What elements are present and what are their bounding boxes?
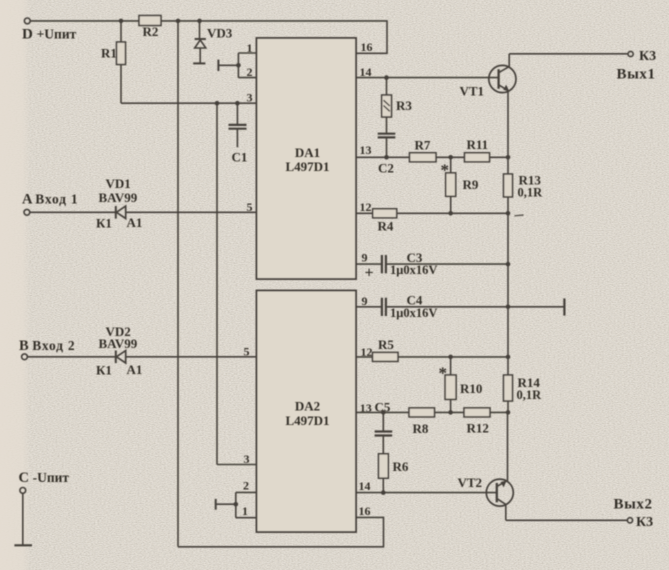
svg-text:12: 12 (360, 200, 372, 214)
IC DA2 L497D1 (257, 291, 357, 533)
svg-text:R7: R7 (415, 138, 431, 153)
capacitor C4 (381, 298, 383, 316)
transistor VT2 (486, 479, 513, 506)
diode VD1 BAV99 (115, 206, 117, 219)
end bar C (14, 544, 32, 546)
resistor R14 (504, 375, 513, 401)
wire left long vertical (+U to bottom) (177, 21, 179, 547)
svg-text:VD1: VD1 (106, 176, 131, 191)
capacitor C1 (236, 103, 238, 124)
node junction R6 bottom (381, 490, 386, 495)
node junction R9 bottom (448, 211, 453, 216)
transistor VT1 (489, 65, 516, 92)
svg-text:VT2: VT2 (458, 475, 483, 490)
node junction C5 top (381, 410, 386, 415)
node junction R14 bottom (506, 410, 511, 415)
svg-text:*: * (441, 161, 450, 180)
node junction left vertical (176, 19, 181, 24)
node junction R9 top (448, 155, 453, 160)
svg-text:B Вход 2: B Вход 2 (19, 338, 75, 354)
svg-text:Вых1: Вых1 (617, 67, 656, 83)
wire pin 9 DA1 (356, 263, 508, 265)
wire pin16 DA2 to bottom rail (178, 517, 384, 546)
svg-text:C5: C5 (375, 400, 391, 415)
node junction R14 top (506, 355, 511, 360)
svg-text:C -Uпит: C -Uпит (19, 470, 70, 486)
wire pin 13 DA2 (356, 411, 508, 413)
node junction R3 top (384, 75, 389, 80)
capacitor C3 (381, 255, 383, 273)
diode VD3 (199, 21, 201, 39)
wire pin 14 DA1 to VT1 base (356, 77, 499, 79)
svg-text:R2: R2 (143, 24, 159, 39)
wire pin 13 DA1 (356, 156, 508, 158)
wire pin 2 DA1 and strap box (238, 53, 256, 78)
svg-text:1μ0x16V: 1μ0x16V (390, 263, 437, 277)
stray dash (515, 214, 524, 217)
wire pin 9 DA2 (356, 306, 564, 308)
svg-text:L497D1: L497D1 (285, 159, 329, 174)
svg-text:2: 2 (247, 65, 253, 79)
svg-text:D +Uпит: D +Uпит (22, 27, 77, 43)
svg-text:14: 14 (360, 65, 372, 79)
wire VT1 collector to K3 (509, 53, 628, 55)
node junction R10 bottom (448, 410, 453, 415)
diode VD2 BAV99 (115, 351, 117, 364)
svg-text:R5: R5 (378, 337, 394, 352)
plug symbol pin2 DA1 (218, 64, 238, 66)
wire C down (22, 493, 24, 545)
svg-text:А1: А1 (127, 215, 143, 230)
wire emitter column VT1 down (507, 91, 509, 174)
svg-text:*: * (439, 364, 448, 383)
svg-text:L497D1: L497D1 (285, 413, 329, 428)
svg-text:+: + (365, 265, 374, 282)
svg-text:R1: R1 (101, 46, 117, 61)
svg-text:16: 16 (361, 40, 373, 54)
svg-text:VT1: VT1 (460, 84, 485, 99)
wire pin 1 DA1 (238, 52, 256, 54)
wire pin 2 DA2 and strap box (236, 492, 257, 517)
resistor R13 (504, 174, 513, 197)
terminal D (+Uпит) (24, 18, 30, 24)
svg-text:5: 5 (247, 200, 253, 214)
svg-text:16: 16 (359, 504, 371, 518)
svg-text:BAV99: BAV99 (99, 190, 138, 205)
svg-text:1μ0x16V: 1μ0x16V (390, 306, 437, 320)
svg-text:C2: C2 (378, 161, 394, 176)
node junction R1 (119, 19, 124, 24)
svg-text:5: 5 (244, 345, 250, 359)
resistor R12 (464, 408, 490, 417)
node junction C3 / emitter column (506, 262, 511, 267)
capacitor C5 (382, 412, 384, 431)
capacitor C2 (386, 117, 388, 133)
wire pin 12 DA1 (356, 212, 508, 214)
resistor R9 (450, 157, 452, 173)
svg-text:13: 13 (360, 143, 372, 157)
terminal A (Вход 1) (24, 209, 30, 215)
svg-text:R12: R12 (467, 420, 489, 435)
svg-text:К1: К1 (96, 215, 112, 230)
resistor R3 (386, 78, 388, 95)
resistor R4 (373, 209, 397, 218)
svg-text:3: 3 (247, 91, 253, 105)
resistor R6 (379, 454, 389, 478)
svg-text:9: 9 (362, 251, 368, 265)
svg-text:R6: R6 (393, 459, 409, 474)
wire pin 1 DA2 (236, 517, 257, 519)
svg-text:DA2: DA2 (295, 399, 320, 414)
wire pin 14 DA2 to VT2 base (356, 492, 497, 494)
svg-text:1: 1 (242, 504, 248, 518)
resistor R8 (409, 408, 435, 417)
svg-text:К3: К3 (636, 515, 653, 530)
svg-text:DA1: DA1 (295, 145, 320, 160)
node junction R10 top (448, 355, 453, 360)
svg-text:0,1R: 0,1R (518, 185, 544, 199)
svg-text:14: 14 (359, 479, 371, 493)
svg-text:BAV99: BAV99 (99, 336, 138, 351)
wire pin 3 DA2 (217, 464, 257, 466)
svg-text:К1: К1 (96, 362, 112, 377)
node junction C2 bottom (384, 155, 389, 160)
svg-text:A Вход 1: A Вход 1 (22, 191, 78, 207)
svg-text:0,1R: 0,1R (517, 388, 543, 402)
wire pin 3 DA1 (121, 102, 257, 104)
svg-text:R11: R11 (467, 137, 489, 152)
svg-text:Вых2: Вых2 (614, 496, 653, 512)
end bar C4 wire (563, 298, 565, 315)
svg-text:К3: К3 (639, 49, 656, 64)
resistor R2 (139, 16, 161, 26)
wire input 2 (pin 5 DA2) (28, 356, 257, 358)
resistor R10 (450, 357, 452, 375)
wire pin 12 DA2 (356, 356, 508, 358)
node junction on pin3 (vertical x=217) (215, 101, 220, 106)
resistor R7 (410, 153, 437, 162)
svg-text:R3: R3 (396, 98, 412, 113)
svg-text:R4: R4 (378, 219, 394, 234)
svg-text:R10: R10 (460, 381, 482, 396)
node junction C4 / emitter column (506, 305, 511, 310)
wire VT2 collector to K3 (506, 519, 628, 521)
terminal B (Вход 2) (22, 354, 28, 360)
svg-text:R8: R8 (413, 421, 429, 436)
node junction R13 bottom (506, 211, 511, 216)
svg-text:VD3: VD3 (207, 26, 233, 41)
IC DA1 L497D1 (257, 38, 357, 279)
svg-text:C1: C1 (232, 150, 248, 165)
wire input 1 (30, 211, 257, 213)
node junction pin13 line / emitter column (506, 155, 511, 160)
wire top +U rail to pin16 DA1 (30, 21, 387, 53)
node junction on pin3 (C1) (235, 101, 240, 106)
resistor R11 (465, 153, 490, 162)
svg-text:1: 1 (247, 41, 253, 55)
svg-text:А1: А1 (127, 362, 143, 377)
plug symbol pin1 DA2 (216, 503, 236, 505)
terminal K3 out1 (628, 51, 633, 56)
svg-text:13: 13 (360, 401, 372, 415)
svg-text:12: 12 (361, 345, 373, 359)
node junction VD3 (197, 19, 202, 24)
terminal K3 out2 (627, 518, 632, 523)
resistor R1 (120, 21, 122, 42)
svg-text:R9: R9 (463, 177, 479, 192)
svg-text:9: 9 (362, 294, 368, 308)
svg-text:3: 3 (244, 452, 250, 466)
svg-text:2: 2 (243, 478, 249, 492)
terminal C (-Uпит) (20, 488, 26, 494)
wire middle vertical (pin3 DA1 to pin3 DA2) (216, 103, 218, 464)
resistor R5 (373, 352, 399, 361)
